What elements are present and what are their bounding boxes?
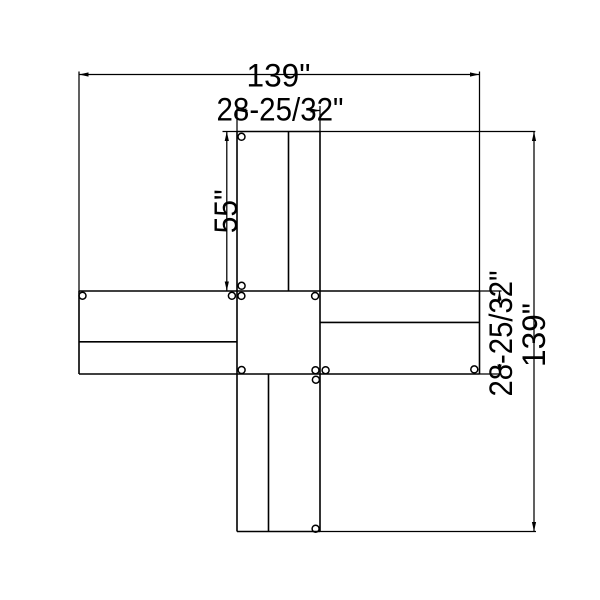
svg-text:139": 139" [247,57,311,93]
svg-text:55": 55" [208,189,244,233]
svg-text:139": 139" [516,303,552,367]
svg-text:28-25/32": 28-25/32" [483,271,519,397]
svg-text:28-25/32": 28-25/32" [217,92,344,128]
